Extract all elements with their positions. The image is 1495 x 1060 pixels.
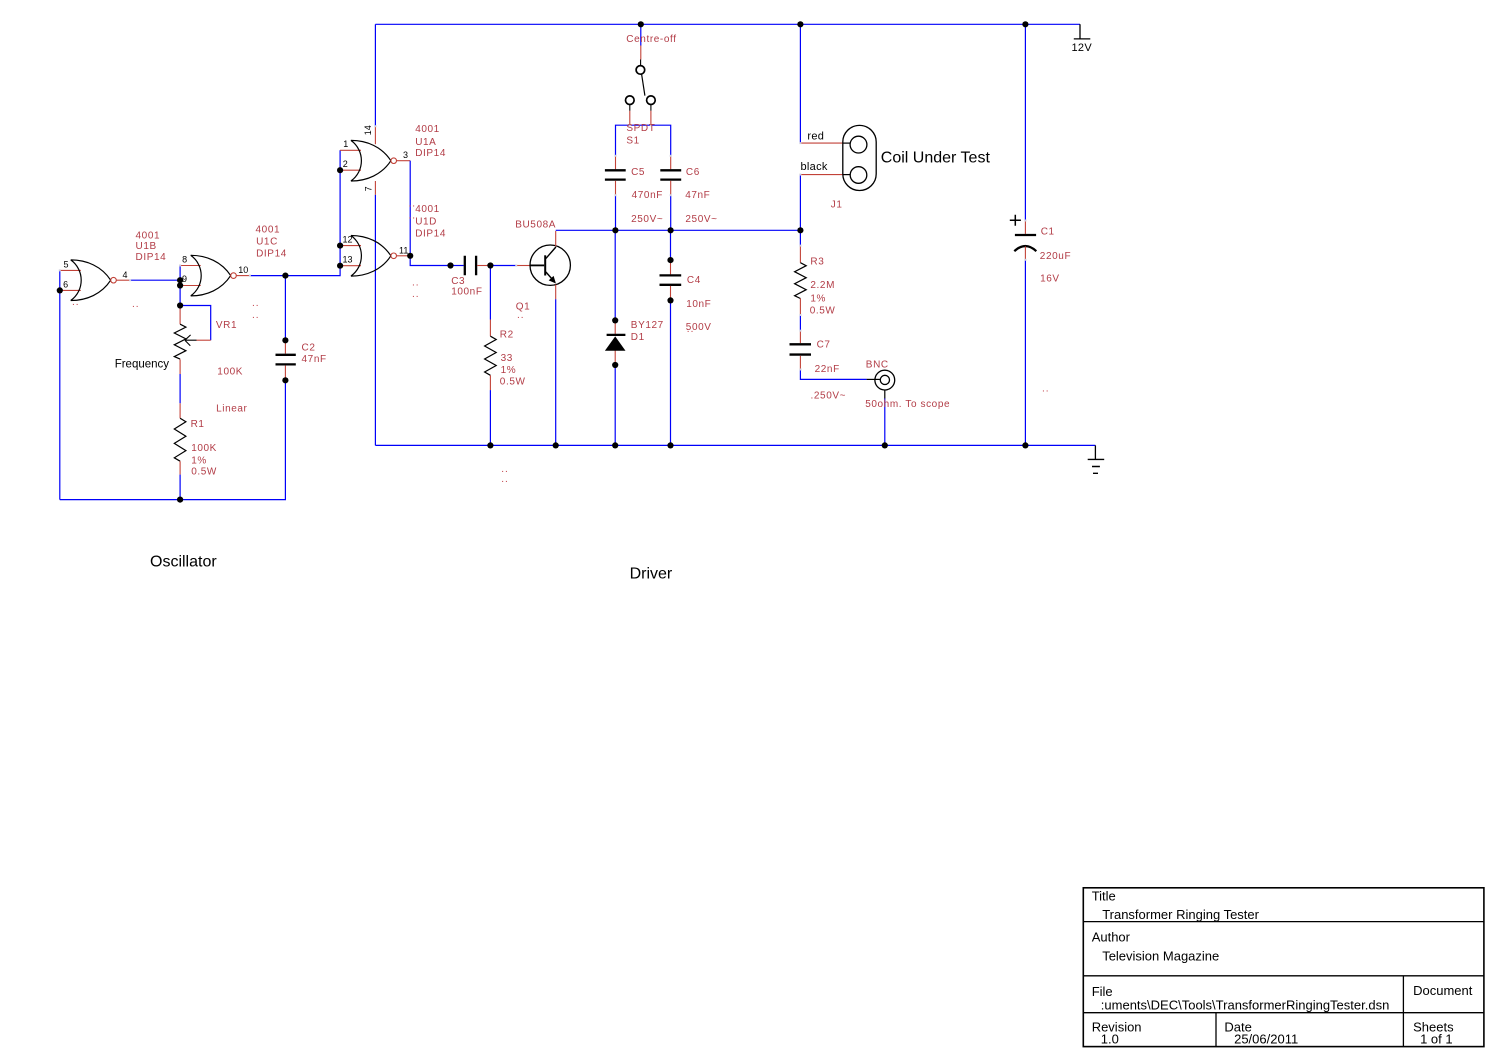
pin C6 top (670, 156, 672, 169)
resistor R1 zigzag (174, 418, 186, 461)
node VR1 top tee (177, 302, 183, 308)
capacitor C5 plates (605, 170, 626, 179)
svg-text:3: 3 (403, 150, 408, 160)
svg-text:C6: C6 (686, 167, 700, 178)
capacitor C1 top plate (1015, 234, 1036, 236)
pin VR1 top (179, 307, 181, 324)
wire driver mid rail (collector net) (556, 229, 801, 231)
wire J1 red terminal (800, 142, 842, 144)
svg-text:100K: 100K (191, 443, 217, 454)
wire R2 branch top (489, 266, 491, 320)
svg-text:BY127: BY127 (631, 320, 664, 331)
node C2 bottom (282, 377, 288, 383)
svg-text:..: .. (72, 297, 80, 308)
svg-text:..: .. (252, 298, 260, 309)
node C4 bottom pin (667, 297, 673, 303)
svg-text:47nF: 47nF (302, 354, 327, 365)
svg-text:VR1: VR1 (216, 320, 237, 331)
black texts (63, 42, 1092, 583)
node U1C pin9 (177, 282, 183, 288)
pin J1 black inside (843, 174, 851, 176)
switch S1 left pole contact (626, 96, 635, 105)
pin BNC left (867, 378, 881, 380)
svg-text:50ohm. To scope: 50ohm. To scope (865, 399, 950, 410)
svg-text:red: red (807, 131, 824, 143)
svg-text:U1D: U1D (415, 216, 437, 227)
pin D1 cathode (614, 320, 616, 334)
pin Q1 base (516, 265, 530, 267)
title block v-line Date column (1215, 1013, 1217, 1047)
pin U1C 10 output (236, 275, 250, 277)
svg-text:1%: 1% (810, 293, 826, 304)
pin C5 bottom (615, 181, 617, 195)
svg-text:SPDT: SPDT (626, 123, 655, 134)
pin U1B 6 (60, 289, 81, 291)
svg-text:1.0: 1.0 (1101, 1032, 1119, 1047)
svg-text:D1: D1 (631, 332, 645, 343)
svg-text:..: .. (409, 211, 417, 222)
svg-text:BU508A: BU508A (515, 220, 556, 231)
pin U1D 13 (340, 265, 361, 267)
node oscillator bottom / R1 (177, 497, 183, 503)
svg-text:Linear: Linear (216, 403, 247, 414)
wire U1C out to U1D/U1A inputs (250, 150, 340, 275)
pin C4 top (670, 260, 672, 274)
connector J1 bottom socket (850, 167, 867, 184)
pin U1C 8 (180, 265, 201, 267)
svg-text:DIP14: DIP14 (256, 248, 287, 259)
resistor R3 zigzag (795, 263, 807, 299)
pin U1D 12 (340, 245, 361, 247)
svg-text:DIP14: DIP14 (136, 252, 167, 263)
node C3 right / R2 tee (487, 262, 493, 268)
node C2 branch tee (282, 273, 288, 279)
capacitor C1 plus sign (1010, 215, 1021, 226)
pin S1 common red (640, 46, 642, 60)
title block (1083, 888, 1484, 1047)
wire VR1 to R1 (179, 374, 181, 403)
connector BNC outer ring (875, 370, 895, 390)
node bottom rail / BNC (882, 442, 888, 448)
svg-text:10: 10 (238, 265, 248, 275)
node bottom rail / D1 (612, 442, 618, 448)
connector J1 top socket (850, 136, 867, 153)
wire C2 branch top (284, 276, 286, 341)
svg-text:Driver: Driver (630, 566, 673, 583)
svg-text:2.2M: 2.2M (810, 280, 835, 291)
op gate U1D NOR body (351, 236, 391, 277)
svg-text:16V: 16V (1040, 274, 1060, 285)
wire Q1 emitter to bottom rail (555, 299, 557, 445)
arrowhead VR1 wiper (black, open) (185, 335, 197, 346)
svg-text:25/06/2011: 25/06/2011 (1234, 1032, 1298, 1047)
pin U1A 7 ground stub (374, 181, 376, 195)
svg-text:13: 13 (343, 255, 353, 265)
title block v-line Document column (1402, 976, 1404, 1047)
diode D1 triangle (605, 336, 626, 350)
wire C6 bottom to mid rail (670, 195, 672, 230)
pin C2 top (284, 340, 286, 353)
pin C1 bottom (1024, 246, 1026, 259)
node bottom rail / R2 (487, 442, 493, 448)
transistor Q1 base lead (530, 264, 544, 266)
svg-text:33: 33 (501, 353, 513, 364)
wire S1 poles to C5/C6 (616, 125, 671, 156)
svg-text:4001: 4001 (136, 231, 161, 242)
svg-text:100nF: 100nF (451, 287, 482, 298)
node mid rail / D1-C5 (612, 227, 618, 233)
svg-text:black: black (801, 161, 828, 173)
pin U1B 5 (60, 269, 81, 271)
pin R3 bottom (799, 299, 801, 316)
node D1 bottom (612, 362, 618, 368)
svg-text:1 of 1: 1 of 1 (1420, 1032, 1453, 1047)
ground bars (1088, 459, 1105, 473)
title block h-line under File row (1083, 1012, 1484, 1014)
node top rail / C1 (1022, 21, 1028, 27)
wire C4 to bottom rail (670, 300, 672, 445)
pin C6 bottom (670, 181, 672, 195)
wire BNC to bottom rail (884, 399, 886, 446)
svg-text:250V~: 250V~ (685, 214, 717, 225)
pin C2 bottom (284, 366, 286, 381)
wire U1B out to U1C in (130, 279, 180, 281)
svg-text:R3: R3 (810, 256, 824, 267)
svg-text:2: 2 (343, 159, 348, 169)
svg-text:Television Magazine: Television Magazine (1102, 948, 1219, 963)
node top rail / J1 red (797, 21, 803, 27)
svg-text:4001: 4001 (415, 204, 440, 215)
capacitor C4 plates (660, 275, 682, 284)
pin U1A 3 output (397, 160, 411, 162)
capacitor C2 plates (276, 355, 296, 365)
pin VR1 bottom (179, 359, 181, 374)
svg-text:0.5W: 0.5W (810, 306, 836, 317)
svg-text:S1: S1 (626, 136, 639, 147)
svg-text:..: .. (412, 289, 420, 300)
svg-text:6: 6 (63, 279, 68, 289)
node mid rail / R3 (797, 227, 803, 233)
stray double-dot marks (72, 199, 1050, 486)
svg-text:0.5W: 0.5W (191, 467, 217, 478)
svg-text:Coil Under Test: Coil Under Test (881, 150, 991, 167)
svg-text:Oscillator: Oscillator (150, 553, 217, 570)
capacitor C7 plates (790, 344, 812, 354)
svg-text:C5: C5 (631, 167, 645, 178)
svg-text:12: 12 (343, 234, 353, 244)
pin U1A 1 (340, 149, 361, 151)
ground stem (1094, 445, 1096, 459)
pale wire-end markers (59, 124, 1027, 370)
transistor Q1 base bar (544, 255, 546, 275)
svg-text:..: .. (517, 310, 525, 321)
svg-text:Transformer Ringing Tester: Transformer Ringing Tester (1102, 907, 1259, 922)
svg-text:22nF: 22nF (815, 364, 840, 375)
svg-text:Title: Title (1092, 889, 1116, 904)
power symbol 12V (1074, 24, 1091, 39)
bubble U1B output (111, 277, 117, 283)
wire C4 branch upper (670, 230, 672, 260)
wire 12V top rail (375, 23, 1080, 25)
svg-text:1: 1 (343, 139, 348, 149)
svg-text:C7: C7 (817, 340, 831, 351)
svg-text:..: .. (501, 464, 509, 475)
wire J1 black to mid rail (799, 175, 801, 231)
svg-text:Document: Document (1413, 983, 1473, 998)
wire VR1 top stub (179, 306, 181, 308)
wire drop from 12V rail to C1 (1024, 24, 1026, 220)
connector BNC inner ring (880, 375, 889, 384)
pin S1 left pole black (629, 104, 631, 110)
svg-text:1%: 1% (501, 365, 517, 376)
wire D1 to bottom rail (614, 365, 616, 445)
resistor R2 zigzag (485, 336, 497, 375)
node U1B pin6 (57, 287, 63, 293)
transistor Q1 emitter diagonal (546, 272, 555, 282)
svg-text:220uF: 220uF (1040, 251, 1071, 262)
wire C5 bottom to mid rail (615, 195, 617, 230)
capacitor C6 plates (660, 170, 681, 179)
node top rail / centre-off (638, 21, 644, 27)
svg-text:11: 11 (399, 245, 408, 255)
connector J1 body (843, 125, 876, 190)
svg-text:C2: C2 (302, 343, 316, 354)
svg-text::uments\DEC\Tools\TransformerR: :uments\DEC\Tools\TransformerRingingTest… (1101, 998, 1390, 1013)
svg-text:8: 8 (182, 254, 187, 264)
wire pin11 node to C3 (410, 256, 450, 266)
pin U1C 9 (180, 285, 201, 287)
node U1D pin13 (337, 263, 343, 269)
svg-text:..: .. (687, 324, 695, 335)
bubble U1D output (391, 253, 397, 259)
wire oscillator bottom (60, 380, 286, 499)
node U1A pin2 (337, 167, 343, 173)
svg-text:4001: 4001 (256, 224, 281, 235)
svg-text:BNC: BNC (866, 360, 889, 371)
node U1C input / pin4 wire (177, 277, 183, 283)
wire D1 branch upper (614, 230, 616, 320)
wire U1C left input vertical (179, 266, 181, 306)
pin S1 common black (640, 60, 642, 66)
svg-text:R2: R2 (500, 330, 514, 341)
svg-text:C4: C4 (687, 275, 701, 286)
pin VR1 wiper (197, 339, 211, 341)
title block h-line under Title row (1083, 921, 1484, 923)
svg-text:.250V~: .250V~ (811, 390, 847, 401)
switch S1 SPDT common contact (636, 66, 645, 75)
svg-text:R1: R1 (191, 419, 205, 430)
svg-text:0.5W: 0.5W (500, 376, 526, 387)
pin J1 red inside (843, 142, 851, 144)
node pin11 output (407, 253, 413, 259)
wire U1A pin7 down to bottom rail (374, 195, 376, 446)
svg-text:Frequency: Frequency (115, 359, 170, 371)
svg-text:..: .. (132, 299, 140, 310)
svg-text:..: .. (412, 278, 420, 289)
node mid rail / C4-C6 (668, 227, 674, 233)
wire U1A out down to pin11 node (409, 161, 411, 256)
wire R1 to oscillator bottom (179, 475, 181, 500)
wire VR1 wiper loop (180, 306, 211, 341)
svg-text:C3: C3 (451, 276, 465, 287)
wire driver bottom rail (375, 444, 1095, 446)
svg-text:..: .. (1042, 384, 1050, 395)
svg-text:Centre-off: Centre-off (626, 34, 676, 45)
node bottom rail / Q1 emitter (553, 442, 559, 448)
svg-text:U1A: U1A (415, 137, 436, 148)
op gate U1A NOR body (351, 140, 391, 181)
title block h-line under Author row (1083, 975, 1484, 977)
pin C1 top (1024, 221, 1026, 234)
potentiometer VR1 zigzag (174, 324, 186, 359)
svg-text:..: .. (252, 310, 260, 321)
wire U1B left input vertical (59, 270, 61, 499)
wire J1 black terminal (800, 174, 842, 176)
wire R3 to C7 (799, 315, 801, 331)
node C3 left (447, 262, 453, 268)
svg-text:47nF: 47nF (685, 190, 710, 201)
pin R3 top (799, 246, 801, 263)
switch S1 lever (642, 74, 645, 95)
capacitor C1 curved plate (1014, 246, 1036, 251)
svg-text:U1C: U1C (256, 236, 278, 247)
svg-text:7: 7 (363, 186, 373, 191)
svg-text:DIP14: DIP14 (415, 148, 446, 159)
node C2 top (282, 337, 288, 343)
pin Q1 emitter (555, 285, 557, 300)
svg-text:..: .. (501, 474, 509, 485)
pin U1B 4 output (116, 279, 130, 281)
pin S1 right pole black (650, 104, 652, 110)
pin D1 anode (614, 350, 616, 365)
op gate U1C NOR body (191, 255, 231, 296)
wire C1 to bottom rail (1024, 260, 1026, 446)
pin C4 bottom (670, 286, 672, 301)
node bottom rail / C4 (667, 442, 673, 448)
node C4 top pin (667, 257, 673, 263)
arrowhead Q1 emitter (549, 276, 556, 284)
wire drop from 12V rail to J1 red terminal (799, 24, 801, 143)
red value/ref labels (136, 34, 1072, 478)
pin C3 right (477, 265, 490, 267)
svg-text:C1: C1 (1041, 226, 1055, 237)
wire R2 to bottom rail (489, 390, 491, 445)
wire R3 branch top (799, 230, 801, 245)
op gate U1B NOR body (71, 260, 111, 301)
pin U1D 11 output (397, 255, 411, 257)
svg-text:U1B: U1B (136, 241, 157, 252)
title block outer border (1083, 888, 1484, 1047)
pin C3 left (covered by wire) (451, 265, 464, 267)
svg-text:470nF: 470nF (632, 190, 663, 201)
svg-text:4: 4 (123, 270, 128, 280)
capacitor C3 plates (465, 256, 476, 276)
pin R1 bottom (179, 461, 181, 474)
svg-text:14: 14 (363, 125, 373, 135)
svg-text:J1: J1 (831, 200, 843, 211)
svg-text:1%: 1% (191, 455, 207, 466)
pin U1A 2 (340, 169, 361, 171)
diode D1 cathode bar (607, 334, 626, 336)
svg-text:4001: 4001 (415, 124, 440, 135)
transistor Q1 collector diagonal (546, 247, 556, 259)
svg-text:9: 9 (182, 274, 187, 284)
bubble U1C output (231, 273, 237, 279)
pin S1 right pole (650, 111, 652, 125)
pin S1 left pole (629, 111, 631, 125)
transistor Q1 circle (530, 245, 570, 285)
pin BNC bottom (884, 390, 886, 399)
pin R2 bottom (489, 375, 491, 390)
pin R2 top (489, 320, 491, 337)
node U1D pin12 (337, 243, 343, 249)
wire C7 to BNC (800, 370, 866, 380)
wire S1 common stub (Centre-off) (640, 24, 642, 45)
node bottom rail / C1 (1022, 442, 1028, 448)
pin R1 top (179, 403, 181, 418)
wire left drop from 12V rail to U1A pin14 (374, 24, 376, 126)
svg-text:100K: 100K (217, 367, 243, 378)
svg-text:10nF: 10nF (686, 299, 711, 310)
svg-text:DIP14: DIP14 (415, 228, 446, 239)
pin C7 bottom (799, 356, 801, 370)
switch S1 right pole contact (647, 96, 656, 105)
wire C3 to Q1 base (490, 265, 516, 267)
svg-text:12V: 12V (1072, 42, 1093, 54)
pin Q1 collector (555, 231, 557, 246)
pin C5 top (615, 156, 617, 169)
pin C7 top (799, 331, 801, 343)
node D1 top (612, 317, 618, 323)
svg-text:250V~: 250V~ (631, 214, 663, 225)
svg-text:Author: Author (1092, 930, 1131, 945)
svg-text:5: 5 (64, 259, 69, 269)
svg-text:..: .. (409, 199, 417, 210)
bubble U1A output (391, 158, 397, 164)
pin U1A 14 power stub (374, 126, 376, 144)
